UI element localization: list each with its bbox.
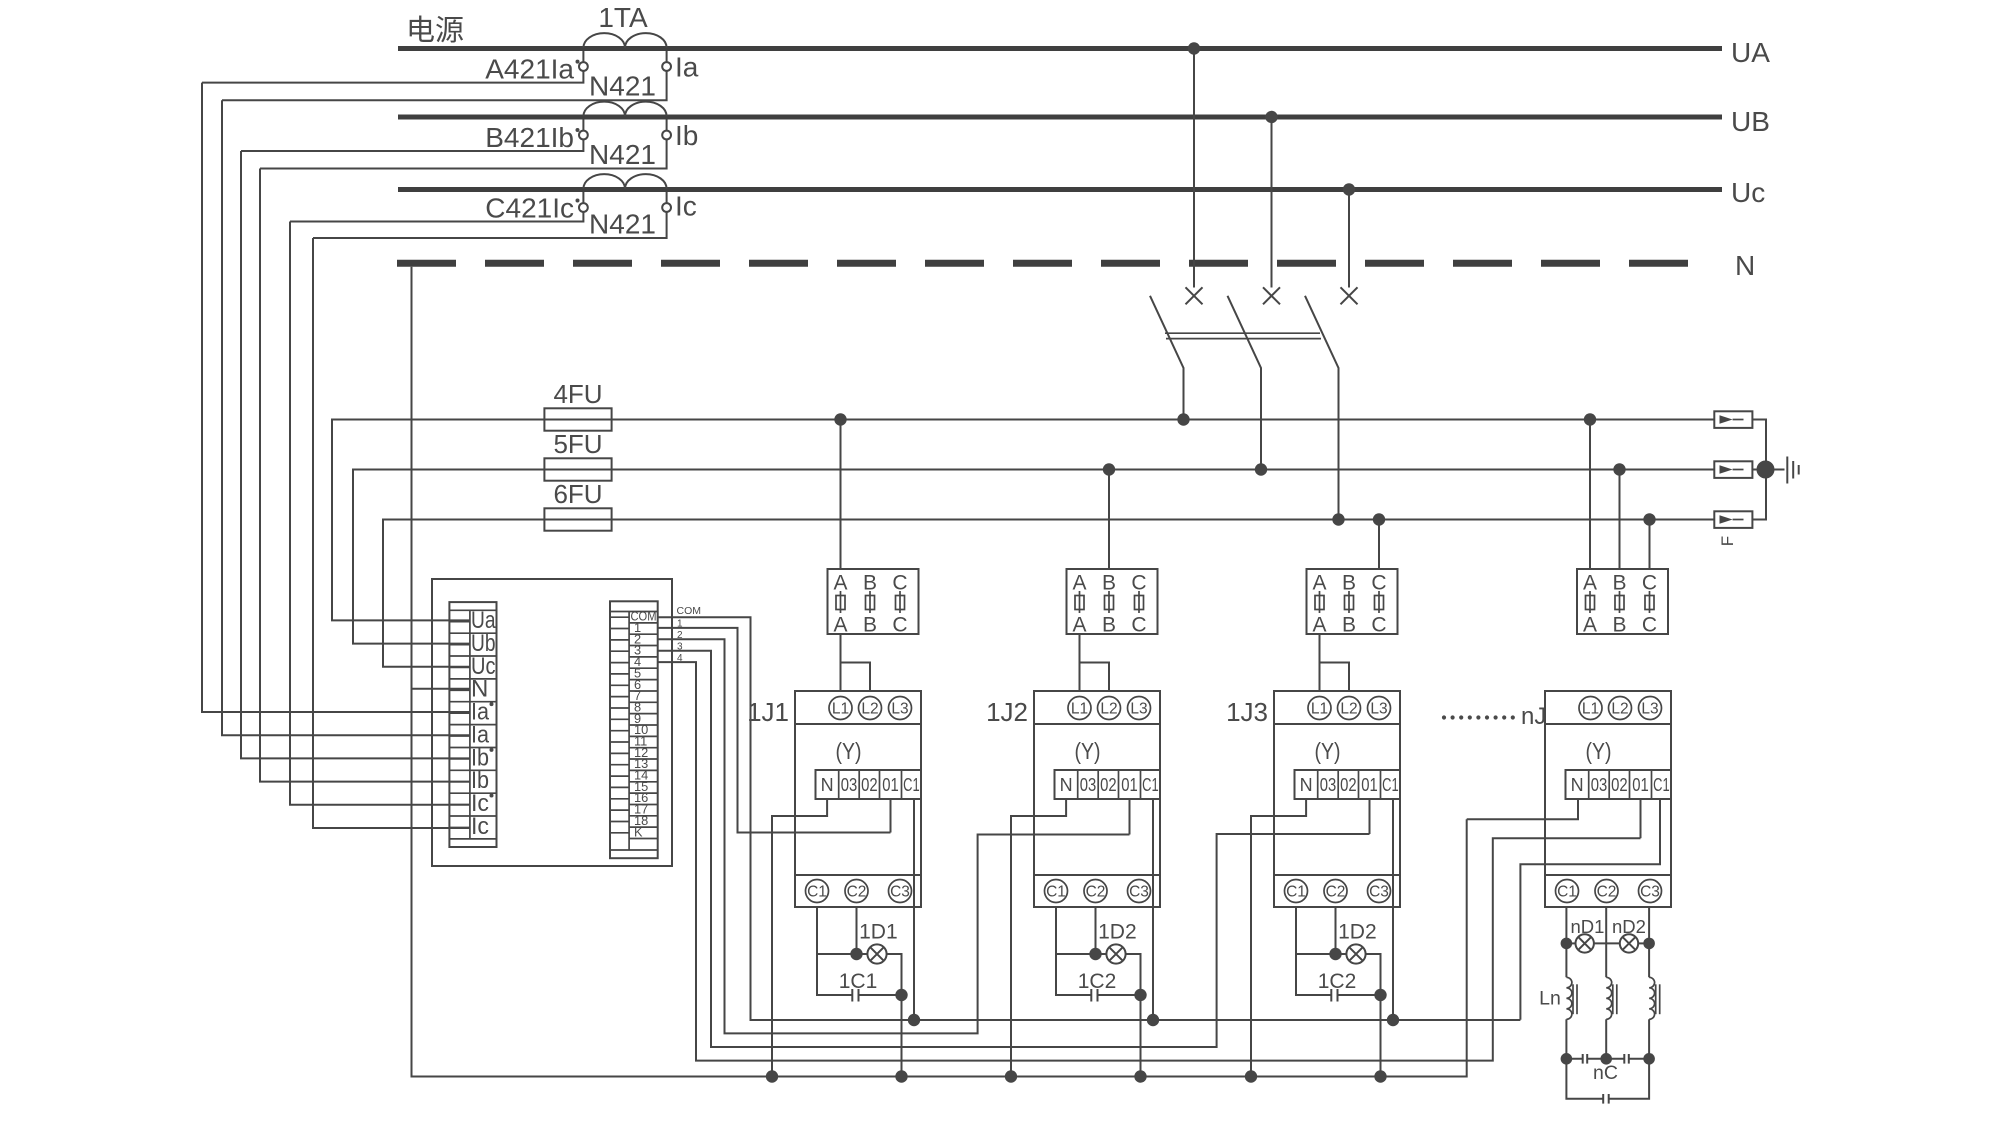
svg-text:03: 03 — [1320, 775, 1337, 795]
svg-text:B: B — [1342, 614, 1356, 637]
wire relay 1J1 C1 control terminal to COM rail — [913, 799, 915, 1020]
wire FU line to fuse block 1 — [840, 420, 842, 570]
node nC bank right — [1643, 1053, 1655, 1065]
svg-text:C: C — [892, 614, 907, 637]
CT 1TA phase B (transformer winding arcs) — [583, 102, 666, 117]
svg-text:B421Ib: B421Ib — [485, 122, 574, 153]
svg-text:1D2: 1D2 — [1098, 921, 1137, 944]
bus Uc — [398, 177, 1765, 208]
svg-text:03: 03 — [1080, 775, 1097, 795]
CT 1TA phase C (transformer winding arcs) — [583, 174, 666, 189]
wire N from dashed bus down left side to bottom N rail — [412, 267, 1467, 1077]
svg-text:A421Ia: A421Ia — [485, 54, 574, 85]
svg-text:(Y): (Y) — [1075, 738, 1101, 764]
svg-text:4FU: 4FU — [553, 379, 602, 409]
wire fuse block 2 output to relay L1/L2 — [1080, 634, 1110, 691]
switch blade pole 2 — [1228, 296, 1262, 470]
wire CT secondary Ic to controller terminal Ic — [313, 238, 470, 828]
svg-text:N: N — [1735, 250, 1755, 281]
bus UA — [398, 37, 1770, 68]
CT secondary terminal Ia (right circle) — [662, 51, 671, 71]
node relay 1J2 N on bottom rail — [1005, 1070, 1017, 1082]
relay 1J3 capacitor terminal box C1 C2 C3 — [1274, 875, 1400, 907]
relay 1J1 label — [747, 697, 789, 727]
svg-text:01: 01 — [1361, 775, 1378, 795]
svg-text:01: 01 — [1121, 775, 1138, 795]
wire lamp 1D2 to capacitor output — [1366, 954, 1381, 995]
svg-text:电源: 电源 — [406, 14, 464, 47]
label N421 — [589, 209, 656, 240]
svg-text:Ln: Ln — [1539, 988, 1561, 1010]
svg-text:COM: COM — [677, 605, 702, 617]
wire relay 1J1 capacitor output to bottom N rail — [901, 995, 903, 1077]
node fuse block 4 tap on FU line — [1643, 513, 1655, 525]
relay 1J2 control terminal strip N 03 02 01 C1 — [1055, 770, 1161, 799]
svg-text:UA: UA — [1731, 37, 1770, 68]
wire lamp 1D1 to capacitor output — [887, 954, 902, 995]
svg-text:1C1: 1C1 — [839, 970, 878, 993]
wire COM from controller to relay common rail — [658, 617, 1521, 1020]
relay 1J1 control terminal strip N 03 02 01 C1 — [816, 770, 922, 799]
wire fuse block 3 output to relay L1/L2 — [1320, 634, 1350, 691]
svg-text:1TA: 1TA — [598, 2, 648, 33]
svg-text:N: N — [1571, 775, 1584, 795]
svg-text:UB: UB — [1731, 106, 1770, 137]
node relay 1J1 capacitor output on bottom rail — [895, 1070, 907, 1082]
CT secondary terminal A421Ia* (left circle) — [579, 51, 588, 71]
label 3 — [677, 642, 683, 653]
svg-text:4: 4 — [677, 653, 683, 664]
CT 1TA phase A (transformer winding arcs) — [583, 33, 666, 48]
svg-text:Ic: Ic — [675, 191, 697, 222]
svg-text:02: 02 — [1100, 775, 1117, 795]
wire FU line to fuse block 4 — [1619, 470, 1621, 570]
bus N (dashed neutral) — [397, 250, 1755, 281]
capacitor 1C2 — [1318, 970, 1381, 1002]
svg-text:2: 2 — [677, 630, 683, 641]
node nJ lamp row right — [1643, 938, 1655, 950]
label ........ nJ — [1442, 703, 1546, 730]
svg-text:C2: C2 — [847, 884, 867, 901]
svg-text:L2: L2 — [861, 701, 878, 718]
svg-text:C1: C1 — [1557, 884, 1577, 901]
label Ia — [675, 52, 699, 83]
svg-text:C1: C1 — [1382, 775, 1399, 795]
wire output 4 to relay nJ terminal 01 — [658, 662, 1641, 1061]
wire relay 1J2 01 terminal stub — [1129, 799, 1131, 835]
node relay 1J2 C1 control on COM rail — [1147, 1014, 1159, 1026]
arrester F3 (arrow box) — [1714, 511, 1752, 528]
wire output 3 to relay 1J3 terminal 01 — [658, 651, 1370, 1047]
node nC bank left — [1561, 1053, 1573, 1065]
lamp nD2 — [1612, 916, 1646, 953]
CT secondary terminal B421Ib* (left circle) — [579, 120, 588, 140]
node blade to 5FU line pole 2 — [1255, 463, 1267, 475]
label Ic — [675, 191, 697, 222]
wire relay 1J1 01 terminal stub — [890, 799, 892, 833]
wire 4FU voltage sense line — [332, 420, 1714, 621]
wire output 1 to relay 1J1 terminal 01 — [658, 628, 891, 833]
wire FU line to fuse block 4 — [1649, 520, 1651, 570]
svg-text:N: N — [1060, 775, 1073, 795]
wire relay 1J3 N terminal to bottom N rail — [1251, 799, 1306, 1077]
node bus tap pole 2 — [1265, 111, 1277, 123]
label 电源 — [406, 14, 464, 47]
arrester F1 (arrow box) — [1714, 411, 1752, 428]
svg-text:L3: L3 — [1130, 701, 1147, 718]
label N421 — [589, 139, 656, 170]
svg-text:(Y): (Y) — [836, 738, 862, 764]
label F (rotated) — [1718, 536, 1737, 546]
svg-text:C3: C3 — [1129, 884, 1149, 901]
wire N421 from CT2 right terminal — [260, 139, 667, 168]
svg-text:Ib: Ib — [675, 120, 698, 151]
wire FU line to fuse block 2 — [1108, 470, 1110, 570]
node fuse block 4 tap on FU line — [1584, 413, 1596, 425]
switch blade pole 1 — [1150, 296, 1184, 420]
relay 1J2 label — [986, 697, 1028, 727]
wire FU line to fuse block 3 — [1378, 520, 1380, 570]
node relay 1J1 C1 control on COM rail — [908, 1014, 920, 1026]
wire relay 1J3 01 terminal stub — [1369, 799, 1371, 834]
svg-text:L2: L2 — [1340, 701, 1357, 718]
svg-text:L2: L2 — [1611, 701, 1628, 718]
node relay 1J3 capacitor output junction — [1374, 989, 1386, 1001]
fuse block 2 (A/B/C fuses) — [1067, 569, 1158, 637]
wire relay 1J1 C1-C2 branch — [817, 953, 857, 955]
relay 1J3 label — [1226, 697, 1268, 727]
inductor Ln (phase 1 reactor) — [1539, 977, 1577, 1019]
wire relay 1J2 C1 control terminal to COM rail — [1152, 799, 1154, 1020]
svg-text:L1: L1 — [832, 701, 849, 718]
svg-text:F: F — [1718, 536, 1737, 546]
svg-text:L3: L3 — [891, 701, 908, 718]
label nC — [1593, 1062, 1618, 1084]
svg-text:C2: C2 — [1326, 884, 1346, 901]
inductor reactor phase 2 — [1606, 977, 1617, 1019]
capacitor nC 1-2 — [1566, 1054, 1606, 1064]
svg-text:N421: N421 — [589, 139, 656, 170]
svg-text:1D1: 1D1 — [859, 921, 898, 944]
svg-text:N: N — [1300, 775, 1313, 795]
wire output 2 to relay 1J2 terminal 01 — [658, 639, 1130, 1033]
capacitor nC 2-3 — [1606, 1054, 1649, 1064]
node relay 1J1 capacitor output junction — [895, 989, 907, 1001]
wire relay 1J1 C2 terminal down — [856, 907, 858, 954]
wire 5FU voltage sense line — [353, 470, 1714, 644]
svg-text:Uc: Uc — [1731, 177, 1765, 208]
wire CT secondary Ia* to controller terminal Ia* — [202, 83, 470, 712]
wire relay 1J3 capacitor output to bottom N rail — [1380, 995, 1382, 1077]
fuse 6FU — [544, 479, 611, 531]
svg-text:A: A — [1312, 614, 1326, 637]
wire CT secondary Ic* to controller terminal Ic* — [290, 222, 470, 805]
svg-text:5FU: 5FU — [553, 429, 602, 459]
node nJ lamp row left — [1561, 938, 1573, 950]
capacitor nC 1-3 (bottom loop) — [1566, 1059, 1649, 1104]
label 1 — [677, 619, 683, 630]
wire relay 1J3 C2 terminal down — [1335, 907, 1337, 954]
wire nJ C1 terminal down — [1565, 907, 1567, 977]
CT secondary terminal Ib (right circle) — [662, 120, 671, 140]
wire relay nJ 01 terminal stub — [1640, 799, 1642, 838]
label COM — [677, 605, 702, 617]
fuse block 3 (A/B/C fuses) — [1307, 569, 1398, 637]
node blade to 4FU line pole 1 — [1177, 413, 1189, 425]
lamp 1D1 — [857, 921, 898, 964]
label 1TA — [598, 2, 648, 33]
svg-text:C1: C1 — [807, 884, 827, 901]
wire fuse block 1 output to relay L1/L2 — [841, 634, 871, 691]
lamp 1D2 — [1336, 921, 1377, 964]
node relay 1J3 lamp junction — [1329, 948, 1341, 960]
wire CT secondary Ib* to controller terminal Ib* — [241, 151, 470, 758]
node relay 1J2 lamp junction — [1089, 948, 1101, 960]
svg-text:1: 1 — [677, 619, 683, 630]
node fuse block 3 tap on FU line — [1373, 513, 1385, 525]
node relay 1J2 capacitor output junction — [1134, 989, 1146, 1001]
wire B421Ib* from CT2 left terminal — [241, 139, 583, 151]
arrester F2 (arrow box) — [1714, 461, 1752, 478]
terminal strip right (control outputs COM,1-18,K) — [610, 601, 658, 858]
capacitor 1C1 — [839, 970, 902, 1002]
lamp 1D2 — [1096, 921, 1137, 964]
fuse block 1 (A/B/C fuses) — [828, 569, 919, 637]
relay 1J1 body — [795, 724, 921, 875]
wire relay 1J2 C1 capacitor terminal down — [1056, 907, 1091, 995]
wire N branch into controller terminal N — [412, 688, 470, 690]
svg-text:nC: nC — [1593, 1062, 1618, 1084]
relay 1J2 input terminal box L1 L2 L3 — [1034, 691, 1160, 724]
node relay 1J3 N on bottom rail — [1245, 1070, 1257, 1082]
bus UB — [398, 106, 1770, 137]
svg-text:C421Ic: C421Ic — [485, 193, 574, 224]
relay 1J1 input terminal box L1 L2 L3 — [795, 691, 921, 724]
relay 1J3 body — [1274, 724, 1400, 875]
svg-text:(Y): (Y) — [1315, 738, 1341, 764]
node nJ N on bottom rail corner — [1466, 1075, 1468, 1077]
svg-text:C1: C1 — [1286, 884, 1306, 901]
node relay 1J3 C1 control on COM rail — [1387, 1014, 1399, 1026]
CT secondary terminal Ic (right circle) — [662, 192, 671, 212]
label A421Ia* — [485, 54, 579, 85]
svg-text:(Y): (Y) — [1586, 738, 1612, 764]
switch contact X pole 1 — [1186, 287, 1203, 304]
svg-text:N: N — [821, 775, 834, 795]
svg-text:L1: L1 — [1071, 701, 1088, 718]
wire lamp 1D2 to capacitor output — [1126, 954, 1141, 995]
wire CT secondary Ib to controller terminal Ib — [260, 169, 470, 782]
wire lamp nD2 to C3 leg — [1638, 942, 1649, 944]
svg-text:1J3: 1J3 — [1226, 697, 1268, 727]
switch contact X pole 3 — [1341, 287, 1358, 304]
svg-text:C1: C1 — [1142, 775, 1159, 795]
wire relay nJ C1 control terminal to COM rail — [1520, 799, 1660, 1020]
svg-text:C3: C3 — [1640, 884, 1660, 901]
svg-text:C3: C3 — [890, 884, 910, 901]
wire relay nJ N terminal to bottom N rail — [1467, 799, 1578, 819]
wire relay 1J1 C1 capacitor terminal down — [817, 907, 852, 995]
svg-text:C: C — [1131, 614, 1146, 637]
label 4 — [677, 653, 683, 664]
wire FU line to fuse block 4 — [1589, 420, 1591, 570]
svg-text:Ia: Ia — [675, 52, 699, 83]
wire relay 1J3 C1-C2 branch — [1296, 953, 1336, 955]
node nC bank middle — [1600, 1053, 1612, 1065]
relay 1J1 capacitor terminal box C1 C2 C3 — [795, 875, 921, 907]
wire relay 1J1 N terminal to bottom N rail — [772, 799, 827, 1077]
svg-text:1D2: 1D2 — [1338, 921, 1377, 944]
relay 1J2 body — [1034, 724, 1160, 875]
svg-text:L3: L3 — [1641, 701, 1658, 718]
wire bus drop to switch pole 3 — [1348, 190, 1350, 288]
wire reactor legs down — [1566, 1019, 1649, 1059]
wire N421 from CT3 right terminal — [313, 212, 667, 238]
relay nJ input terminal box L1 L2 L3 — [1545, 691, 1671, 724]
svg-text:02: 02 — [1611, 775, 1628, 795]
svg-text:A: A — [1072, 614, 1086, 637]
wire relay 1J3 C1 capacitor terminal down — [1296, 907, 1331, 995]
svg-text:K: K — [634, 824, 643, 839]
breaker linkage bar — [1165, 333, 1321, 338]
wire C421Ic* from CT3 left terminal — [290, 212, 583, 222]
controller unit box — [432, 579, 672, 866]
ground (earth symbol) — [1787, 457, 1798, 484]
wire nJ C2 terminal down — [1605, 907, 1607, 977]
relay nJ body — [1545, 724, 1671, 875]
wire 6FU voltage sense line — [383, 520, 1714, 667]
node relay 1J1 N on bottom rail — [766, 1070, 778, 1082]
svg-text:01: 01 — [1632, 775, 1649, 795]
svg-text:nD1: nD1 — [1571, 916, 1605, 937]
wire relay 1J2 N terminal to bottom N rail — [1011, 799, 1066, 1077]
wire nJ C3 terminal down — [1648, 907, 1650, 977]
svg-text:C1: C1 — [903, 775, 920, 795]
node fuse block 2 tap on FU line — [1103, 463, 1115, 475]
relay 1J2 capacitor terminal box C1 C2 C3 — [1034, 875, 1160, 907]
wire bus drop to switch pole 2 — [1271, 117, 1273, 288]
node bus tap pole 3 — [1343, 183, 1355, 195]
svg-text:03: 03 — [1591, 775, 1608, 795]
svg-text:1C2: 1C2 — [1078, 970, 1117, 993]
node relay 1J3 capacitor output on bottom rail — [1374, 1070, 1386, 1082]
svg-text:C2: C2 — [1597, 884, 1617, 901]
lamp nD1 — [1566, 916, 1604, 953]
svg-text:03: 03 — [841, 775, 858, 795]
label C421Ic* — [485, 193, 579, 224]
svg-text:B: B — [1612, 614, 1626, 637]
svg-text:02: 02 — [861, 775, 878, 795]
svg-text:N421: N421 — [589, 71, 656, 102]
fuse 5FU — [544, 429, 611, 481]
svg-text:02: 02 — [1340, 775, 1357, 795]
svg-text:L2: L2 — [1100, 701, 1117, 718]
relay 1J3 control terminal strip N 03 02 01 C1 — [1295, 770, 1401, 799]
svg-text:1J2: 1J2 — [986, 697, 1028, 727]
terminal strip left (voltage/current inputs) — [449, 602, 496, 847]
svg-text:C: C — [1642, 614, 1657, 637]
wire bus drop to switch pole 1 — [1193, 49, 1195, 288]
svg-text:L1: L1 — [1582, 701, 1599, 718]
svg-text:N421: N421 — [589, 209, 656, 240]
wire relay 1J2 C2 terminal down — [1095, 907, 1097, 954]
wire arrester common — [1752, 420, 1784, 520]
switch blade pole 3 — [1305, 296, 1339, 520]
wire relay 1J2 capacitor output to bottom N rail — [1140, 995, 1142, 1077]
svg-text:B: B — [1102, 614, 1116, 637]
wire lamp nD1 to lamp nD2 — [1594, 942, 1620, 944]
node arrester common junction — [1757, 461, 1775, 479]
svg-text:C1: C1 — [1046, 884, 1066, 901]
wire relay 1J2 C1-C2 branch — [1056, 953, 1096, 955]
relay nJ capacitor terminal box C1 C2 C3 — [1545, 875, 1671, 907]
wire CT secondary Ia to controller terminal Ia — [222, 100, 470, 735]
node fuse block 1 tap on FU line — [834, 413, 846, 425]
svg-text:6FU: 6FU — [553, 479, 602, 509]
inductor reactor phase 3 — [1649, 977, 1660, 1019]
node relay 1J2 capacitor output on bottom rail — [1134, 1070, 1146, 1082]
svg-text:Ic: Ic — [471, 813, 489, 840]
svg-text:3: 3 — [677, 642, 683, 653]
label B421Ib* — [485, 122, 579, 153]
svg-text:L1: L1 — [1311, 701, 1328, 718]
node fuse block 4 tap on FU line — [1613, 463, 1625, 475]
label Ib — [675, 120, 698, 151]
svg-text:C3: C3 — [1369, 884, 1389, 901]
svg-text:B: B — [863, 614, 877, 637]
node bus tap pole 1 — [1188, 42, 1200, 54]
svg-text:1C2: 1C2 — [1318, 970, 1357, 993]
fuse 4FU — [544, 379, 611, 431]
svg-text:nD2: nD2 — [1612, 916, 1646, 937]
svg-text:C: C — [1371, 614, 1386, 637]
relay nJ control terminal strip N 03 02 01 C1 — [1566, 770, 1672, 799]
relay 1J3 input terminal box L1 L2 L3 — [1274, 691, 1400, 724]
label N421 — [589, 71, 656, 102]
svg-text:C1: C1 — [1653, 775, 1670, 795]
wire relay 1J3 C1 control terminal to COM rail — [1392, 799, 1394, 1020]
svg-text:01: 01 — [882, 775, 899, 795]
switch contact X pole 2 — [1263, 287, 1280, 304]
svg-text:A: A — [833, 614, 847, 637]
label 2 — [677, 630, 683, 641]
svg-text:C2: C2 — [1086, 884, 1106, 901]
capacitor 1C2 — [1078, 970, 1141, 1002]
wire N421 from CT1 right terminal — [222, 71, 667, 100]
svg-text:1J1: 1J1 — [747, 697, 789, 727]
node blade to 6FU line pole 3 — [1332, 513, 1344, 525]
fuse block 4 (A/B/C fuses) — [1577, 569, 1668, 637]
svg-text:L3: L3 — [1370, 701, 1387, 718]
node relay 1J1 lamp junction — [850, 948, 862, 960]
CT secondary terminal C421Ic* (left circle) — [579, 192, 588, 212]
svg-text:A: A — [1583, 614, 1597, 637]
wire A421Ia* from CT1 left terminal — [202, 71, 583, 83]
svg-text:nJ: nJ — [1521, 703, 1546, 730]
